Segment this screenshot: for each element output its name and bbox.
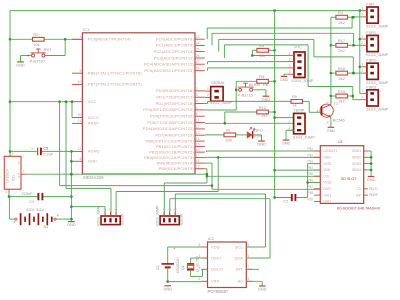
svg-text:OSCI: OSCI [211, 255, 221, 260]
junction VCC-out / GND-rail crossing [70, 173, 73, 176]
crystal Q1 32.768kHz [181, 256, 199, 272]
svg-text:16: 16 [196, 148, 200, 152]
svg-text:gnd: gnd [16, 172, 20, 177]
svg-text:AVCC: AVCC [88, 115, 99, 120]
svg-text:PD0(RXD/PCINT16): PD0(RXD/PCINT16) [156, 88, 194, 93]
svg-text:GND: GND [258, 287, 267, 292]
svg-text:RST: RST [44, 47, 52, 52]
svg-text:RTC: RTC [294, 46, 302, 50]
IC1 right pins [143, 35, 205, 171]
wire SD VDD from VCC riser [275, 169, 321, 171]
svg-text:CLK: CLK [323, 174, 330, 178]
svg-text:IC2: IC2 [208, 236, 215, 241]
wire SS to SD CS [206, 151, 208, 152]
svg-text:PB4(MISO/PCINT4): PB4(MISO/PCINT4) [157, 160, 195, 165]
wire MOSI to ISP1 pin1 [217, 157, 219, 191]
svg-text:17: 17 [196, 154, 200, 158]
wire R4 to FSR pin2 [348, 16, 353, 18]
ground [257, 141, 266, 147]
wire TEMP pin3 to gnd [286, 129, 294, 131]
junction GND rail / ISP gnd [70, 205, 73, 208]
svg-text:Q1: Q1 [181, 265, 185, 270]
wire R12 right to VCC [268, 111, 274, 113]
svg-text:+: + [31, 147, 33, 151]
svg-text:PC2(ADC2/PCINT10): PC2(ADC2/PCINT10) [154, 49, 195, 54]
ground [282, 140, 291, 146]
svg-text:4.5V..3.6V: 4.5V..3.6V [26, 207, 44, 212]
junction MOSI/ISP [217, 156, 220, 159]
svg-text:14: 14 [196, 137, 200, 141]
svg-text:3: 3 [289, 64, 291, 68]
connector FSR2 (S1G2_JUMP) [361, 59, 388, 85]
connector SERIAL (S1G2_JUMP) [207, 80, 232, 105]
junction VSS2 [306, 181, 309, 184]
svg-text:FSR: FSR [366, 3, 374, 7]
svg-text:INFO: INFO [253, 127, 262, 132]
svg-text:2: 2 [168, 208, 172, 210]
svg-text:P$9: P$9 [307, 197, 313, 201]
wire VCC to TEMP pin1 [275, 117, 294, 119]
ground [327, 127, 336, 133]
svg-text:CR2032H: CR2032H [176, 257, 180, 273]
wire RTC pin1 net [252, 55, 287, 57]
svg-text:21: 21 [78, 119, 82, 123]
svg-text:2.2uF: 2.2uF [43, 151, 54, 156]
svg-text:GND: GND [280, 77, 289, 82]
wire GND pin link [70, 160, 73, 162]
resistor R9 [291, 94, 303, 103]
wire reset to button [64, 39, 66, 55]
svg-text:GND2: GND2 [352, 156, 361, 160]
pushbutton RST (P-B1720) [30, 47, 52, 64]
connector ISP2 (S2G3_JUMP 3-pin) [156, 205, 184, 227]
wire button left to gnd [21, 55, 32, 57]
svg-text:1: 1 [79, 35, 81, 39]
wire coin cell minus to gnd rail [167, 267, 169, 281]
IC IC2 PCF8583P body [208, 236, 247, 294]
wire MISO branch from regulator riser [60, 185, 212, 187]
svg-text:20: 20 [78, 113, 82, 117]
wire VCC riser right column [274, 11, 276, 198]
svg-text:PB3(MOSI/OC2A/PCINT3): PB3(MOSI/OC2A/PCINT3) [144, 155, 194, 160]
wire FSR pin1 VCC chain [359, 11, 361, 94]
capacitor C5 2.2uF [10, 145, 71, 156]
svg-text:26: 26 [196, 54, 200, 58]
svg-text:2k2: 2k2 [339, 20, 345, 25]
connector FSR3 (S1G2_JUMP) [361, 85, 388, 111]
svg-text:S1G2_JUMP: S1G2_JUMP [366, 25, 389, 29]
capacitor C3 220nF [9, 191, 71, 204]
junction SCK/SD CLK [206, 175, 209, 178]
svg-text:DAT0: DAT0 [323, 187, 331, 191]
svg-text:R2: R2 [34, 32, 39, 37]
svg-text:SCL: SCL [235, 244, 244, 249]
wire R4 left elbow [331, 16, 336, 18]
svg-text:8: 8 [79, 157, 81, 161]
svg-text:2: 2 [196, 87, 198, 91]
svg-text:PC3(ADC3/PCINT11): PC3(ADC3/PCINT11) [154, 55, 194, 60]
svg-text:R17: R17 [338, 38, 345, 43]
svg-text:Q_32,768: Q_32,768 [196, 256, 200, 272]
svg-text:6: 6 [247, 243, 249, 247]
ground [367, 177, 376, 183]
svg-text:2: 2 [109, 208, 113, 210]
svg-text:VDD: VDD [323, 168, 331, 172]
resistor R17 [336, 38, 348, 47]
svg-text:DAT2: DAT2 [323, 200, 331, 204]
svg-text:1: 1 [207, 87, 209, 91]
svg-text:18: 18 [196, 159, 200, 163]
svg-text:25: 25 [196, 48, 200, 52]
svg-text:OSCO: OSCO [211, 267, 223, 272]
svg-text:PB1(OC1A/PCINT1): PB1(OC1A/PCINT1) [156, 144, 194, 149]
resistor R5 [257, 74, 269, 83]
svg-text:22: 22 [78, 147, 82, 151]
resistor R16 [336, 66, 348, 75]
svg-text:11: 11 [196, 119, 200, 123]
battery B1 4.5V..3.6V [13, 207, 60, 229]
svg-text:INT: INT [236, 267, 243, 272]
svg-text:GND1: GND1 [352, 149, 361, 153]
transistor T1 BC546 [317, 100, 345, 124]
svg-text:CMD: CMD [323, 156, 331, 160]
svg-text:P$8: P$8 [307, 191, 313, 195]
resistor R15 [336, 89, 348, 98]
svg-text:S1G2_JUMP: S1G2_JUMP [366, 107, 389, 111]
wire RTC pin4 to gnd [284, 73, 288, 75]
junction FSR1 sense [352, 44, 355, 47]
junction C2/VCC riser [273, 196, 276, 199]
svg-text:VSS2: VSS2 [323, 181, 332, 185]
wire LED to gnd [253, 134, 262, 136]
svg-text:S1G2_JUMP: S1G2_JUMP [366, 53, 389, 57]
svg-text:7: 7 [79, 97, 81, 101]
svg-text:A0: A0 [238, 279, 244, 284]
junction FSR3 sense [352, 95, 355, 98]
wire R16 to FSR2 pin2 [348, 72, 363, 74]
wire IC2 A0 to gnd [246, 280, 262, 282]
wire SDA to RTC [208, 61, 288, 63]
svg-text:GND: GND [327, 128, 336, 133]
svg-text:PD2(INT0/PCINT18): PD2(INT0/PCINT18) [156, 101, 195, 106]
junction on left rail at C5 wire [9, 150, 12, 153]
svg-text:1: 1 [173, 208, 177, 210]
svg-text:PC1(ADC1/PCINT9): PC1(ADC1/PCINT9) [156, 43, 194, 48]
svg-text:PB7(XTAL2/TOSC2/PCINT7): PB7(XTAL2/TOSC2/PCINT7) [88, 82, 142, 87]
svg-text:IC1: IC1 [83, 27, 90, 32]
svg-text:P$7: P$7 [307, 185, 313, 189]
wire RXD to SERIAL [205, 90, 211, 92]
svg-text:PC0(ADC0/PCINT8): PC0(ADC0/PCINT8) [156, 37, 194, 42]
wire PC1 to FSR1 sense [211, 33, 213, 45]
svg-text:R5: R5 [259, 74, 264, 79]
junction GND pin [70, 160, 73, 163]
junction GND rail / C3 [70, 195, 73, 198]
svg-text:PC5(ADC5/SCL/PCINT13): PC5(ADC5/SCL/PCINT13) [144, 68, 194, 73]
wire VCC to AVCC [71, 102, 73, 118]
svg-text:10: 10 [78, 80, 82, 84]
resistor R12 [257, 105, 269, 114]
svg-text:PD7(AIN1/PCINT23): PD7(AIN1/PCINT23) [155, 133, 194, 138]
wire R15 to FSR3 pin2 [348, 95, 353, 97]
svg-text:CD: CD [356, 187, 361, 191]
svg-text:VCC: VCC [88, 99, 97, 104]
capacitor C2 [275, 194, 308, 203]
svg-text:G2: G2 [156, 265, 160, 270]
svg-text:PCF8583P: PCF8583P [208, 289, 229, 294]
wire PC3 to FSR3 sense [223, 45, 225, 58]
svg-text:PD3(INT1/OC2B/PCINT19): PD3(INT1/OC2B/PCINT19) [143, 107, 194, 112]
svg-text:P$5: P$5 [307, 172, 313, 176]
svg-text:R1: R1 [226, 128, 231, 133]
junction ISP1 feed / VCC wire [65, 100, 68, 103]
resistor R3 [257, 43, 269, 52]
svg-text:PB5(SCK/PCINT5): PB5(SCK/PCINT5) [159, 166, 195, 171]
svg-text:GND: GND [257, 142, 266, 147]
junction R17 right [352, 44, 355, 47]
wire OSCI to crystal [191, 257, 202, 259]
wire PD2 to R9 [205, 103, 208, 105]
ground [258, 286, 267, 292]
svg-text:P$CD: P$CD [369, 187, 378, 191]
ground [16, 62, 25, 68]
ground [262, 96, 271, 102]
wire PD7 to R1 [205, 134, 224, 136]
IC2 pins [198, 243, 252, 284]
svg-text:PD5(T1/OC0B/PCINT21): PD5(T1/OC0B/PCINT21) [147, 120, 194, 125]
junction VCC riser / SD VDD [273, 169, 276, 172]
svg-text:1: 1 [361, 63, 363, 67]
svg-text:3: 3 [247, 277, 249, 281]
junction R3/VCC riser [273, 49, 276, 52]
svg-text:3: 3 [288, 126, 290, 130]
svg-text:5mm: 5mm [253, 133, 262, 138]
svg-text:AGND: AGND [88, 149, 100, 154]
svg-text:4: 4 [289, 70, 291, 74]
ground [67, 222, 76, 228]
svg-text:5: 5 [196, 106, 198, 110]
wire R3 right to VCC riser [269, 49, 275, 51]
svg-text:VDD: VDD [211, 244, 220, 249]
svg-text:PD6(AIN0/OC0A/PCINT22): PD6(AIN0/OC0A/PCINT22) [143, 126, 194, 131]
svg-text:P$3: P$3 [307, 160, 313, 164]
svg-text:GND4: GND4 [352, 168, 361, 172]
svg-text:PC6(RESET/PCINT14): PC6(RESET/PCINT14) [88, 37, 131, 42]
svg-text:vo: vo [16, 161, 20, 164]
svg-text:S2G3_JUMP: S2G3_JUMP [96, 205, 100, 227]
junction R16 right [352, 72, 355, 75]
svg-text:GND: GND [88, 159, 97, 164]
wire GND to ISP1 pin3 [71, 206, 105, 208]
svg-text:GND: GND [282, 141, 291, 146]
wire R1 to LED [236, 134, 247, 136]
svg-text:8: 8 [198, 243, 200, 247]
junction GND rail / VCC-out wire [70, 173, 73, 176]
junction drive/R16 [330, 72, 333, 75]
wire R9 to T1 base [303, 100, 310, 102]
svg-text:S2G3P: S2G3P [121, 213, 125, 225]
wire regulator gnd pin [8, 189, 10, 192]
wire SDA to ISP2 pin2 [170, 198, 270, 200]
junction coin gnd [166, 280, 169, 283]
junction SCK/VCC-out [206, 173, 209, 176]
svg-text:VSS1: VSS1 [323, 162, 332, 166]
svg-text:4k7: 4k7 [262, 113, 268, 118]
junction on left rail at VCC wire [9, 100, 12, 103]
junction ALRM button left [235, 89, 238, 92]
wire battery+ left rail [9, 11, 11, 157]
svg-text:S1G2_JUMP: S1G2_JUMP [366, 81, 389, 85]
wire R12 left drop [224, 112, 226, 123]
svg-text:PB0(ICP1/CLKO/PCINT0): PB0(ICP1/CLKO/PCINT0) [145, 138, 194, 143]
junction SD gnd2 [370, 156, 373, 159]
junction top rail at FSR0 feed [359, 9, 362, 12]
svg-text:10k: 10k [33, 42, 39, 47]
svg-text:2k2: 2k2 [339, 48, 345, 53]
wire ALRM pull-up net [236, 80, 257, 82]
wire T1 collector to drive rail [330, 96, 332, 104]
junction VCC/regulator riser [58, 100, 61, 103]
wire IC2 INT stub [246, 268, 259, 270]
svg-text:C2: C2 [283, 198, 288, 203]
svg-text:TEMP: TEMP [293, 107, 304, 112]
junction reset/button [64, 38, 67, 41]
svg-text:2: 2 [288, 120, 290, 124]
wire R17 left stub [331, 44, 336, 46]
connector FSR1 (S1G2_JUMP) [361, 31, 388, 57]
ground [163, 286, 172, 292]
wire SD gnd pins chain [370, 151, 372, 176]
connector ISP1 (S2G3_JUMP 3-pin) [96, 205, 124, 227]
svg-text:10k: 10k [259, 53, 265, 58]
junction R15 right [352, 95, 355, 98]
connector TEMP (S1G3_JUMP) [288, 107, 315, 139]
SD socket left pins [307, 147, 337, 204]
junction FSR2 sense [352, 72, 355, 75]
svg-text:1: 1 [361, 35, 363, 39]
svg-text:2: 2 [361, 13, 363, 17]
svg-text:U1: U1 [338, 140, 343, 144]
wire GND rail (AGND/GND/C3/battery) [70, 151, 72, 221]
wire SCK to SD CLK [207, 175, 320, 177]
ground [280, 76, 289, 82]
LED INFO 5mm [247, 127, 263, 138]
junction FSR2 pin1 [359, 66, 362, 69]
op-amp IC1 MEGA328 body [82, 27, 195, 180]
wire pin1 links [360, 38, 363, 40]
svg-text:1: 1 [361, 6, 363, 10]
svg-text:2k2: 2k2 [339, 76, 345, 81]
wire battery right [56, 218, 71, 220]
svg-text:P$WP: P$WP [369, 193, 378, 197]
svg-text:10k: 10k [262, 82, 268, 87]
wire R15 left stub [331, 95, 336, 97]
junction top rail / VCC riser [273, 9, 276, 12]
svg-text:SERIAL: SERIAL [211, 80, 226, 85]
svg-text:2: 2 [361, 69, 363, 73]
svg-text:3: 3 [162, 208, 166, 210]
wire ISP1 pin2 feed [65, 102, 67, 189]
svg-text:PD4(T0/XCK/PCINT20): PD4(T0/XCK/PCINT20) [150, 114, 194, 119]
wire MISO route [205, 162, 212, 164]
svg-text:3: 3 [196, 93, 198, 97]
wire T1 emitter to gnd [330, 117, 332, 127]
svg-text:1: 1 [114, 208, 118, 210]
wire ALRM right to gnd [253, 89, 266, 91]
junction MISO branch [211, 184, 214, 187]
svg-text:ALRM: ALRM [249, 82, 260, 87]
svg-text:R4: R4 [338, 10, 344, 15]
resistor R1 [224, 128, 236, 137]
svg-text:CD/DAT3: CD/DAT3 [323, 149, 337, 153]
wire SCK to ISP2 pin3 [164, 182, 207, 184]
svg-text:LF33CV: LF33CV [6, 169, 10, 183]
wire R12 net [225, 111, 257, 113]
svg-text:7: 7 [247, 265, 249, 269]
svg-text:12: 12 [196, 125, 200, 129]
wire IC2 SCL [246, 246, 265, 248]
wire MOSI to SD CMD [205, 156, 320, 158]
pushbutton ALRM (P-B1715) [238, 82, 260, 98]
junction SD gnd4 [370, 169, 373, 172]
svg-text:1: 1 [6, 190, 8, 194]
wire regulator output (VCC) [21, 173, 26, 175]
svg-text:IO1: IO1 [12, 175, 16, 181]
svg-text:AREF: AREF [88, 121, 99, 126]
svg-text:R3: R3 [259, 43, 264, 48]
svg-text:C5: C5 [43, 145, 48, 150]
svg-text:S1G3_JUMP: S1G3_JUMP [293, 136, 316, 140]
svg-text:C3: C3 [29, 199, 34, 204]
svg-text:1: 1 [361, 89, 363, 93]
svg-text:23: 23 [196, 35, 200, 39]
wire VCC to IC1 [10, 101, 72, 103]
svg-text:PB6(XTAL1/TOSC1/PCINT6): PB6(XTAL1/TOSC1/PCINT6) [88, 71, 142, 76]
wire SCL to RTC [208, 67, 288, 69]
svg-text:MEGA328: MEGA328 [83, 175, 104, 180]
wire FSR drive rail [330, 17, 332, 104]
junction R12/TEMP data [224, 122, 227, 125]
svg-text:2: 2 [289, 58, 291, 62]
wire R3 left drop [252, 49, 257, 51]
svg-text:P$1: P$1 [307, 147, 313, 151]
svg-text:WP: WP [356, 193, 362, 197]
svg-text:GND3: GND3 [352, 162, 361, 166]
wire R5 right [268, 80, 274, 82]
voltage regulator IO1 LF33CV [4, 152, 24, 194]
wire PD5 to TEMP pin2 [205, 122, 294, 124]
svg-text:R16: R16 [338, 66, 345, 71]
svg-text:13: 13 [196, 131, 200, 135]
wire button right to reset junction [45, 55, 65, 57]
junction SD gnd3 [370, 162, 373, 165]
wire SCL to ISP2 pin1 [175, 193, 265, 195]
svg-text:3: 3 [103, 208, 107, 210]
svg-text:6: 6 [196, 112, 198, 116]
svg-text:PB2(SS/OC1B/PCINT2): PB2(SS/OC1B/PCINT2) [149, 149, 194, 154]
IC1 left pins [72, 35, 142, 164]
junction VCC riser / R12 [273, 111, 276, 114]
svg-text:P-B1720: P-B1720 [30, 59, 46, 64]
junction R4 right [352, 16, 355, 19]
wire reset net [10, 38, 32, 40]
svg-text:2k2: 2k2 [339, 99, 345, 104]
svg-text:R12: R12 [259, 105, 266, 110]
battery G2 CR2032H [156, 246, 180, 273]
svg-text:FSR2: FSR2 [366, 59, 376, 63]
svg-text:S2G3P: S2G3P [180, 213, 184, 225]
svg-text:P$4: P$4 [307, 166, 313, 170]
